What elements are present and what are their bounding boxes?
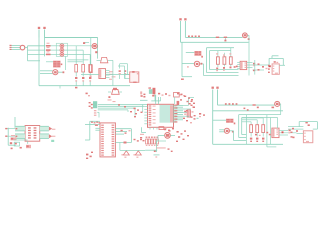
capacitor C5 xyxy=(253,63,260,66)
capacitor C6 xyxy=(253,60,268,75)
connector pins xyxy=(5,128,7,137)
connector X2 xyxy=(272,64,279,74)
wire xyxy=(247,63,269,71)
buzzer SG1 xyxy=(97,57,113,62)
wire xyxy=(28,45,46,47)
wire xyxy=(120,64,130,79)
wire xyxy=(280,104,281,115)
resistor R15 xyxy=(256,125,259,133)
diode D10 xyxy=(262,138,264,142)
pin labels xyxy=(109,71,116,80)
wire xyxy=(44,38,46,57)
transistor Q9 xyxy=(224,128,229,133)
wire xyxy=(272,56,279,59)
wire xyxy=(12,45,21,49)
wire xyxy=(242,118,264,122)
value label xyxy=(53,61,62,68)
transistor Q3 xyxy=(51,53,64,57)
wire xyxy=(219,130,234,133)
wire bus xyxy=(40,126,55,142)
wire xyxy=(207,48,239,73)
wire xyxy=(38,38,40,86)
driver U3 xyxy=(240,61,247,69)
capacitor C12 xyxy=(253,104,259,108)
wire xyxy=(267,115,276,147)
wire xyxy=(183,115,189,118)
wire xyxy=(242,118,278,135)
wire xyxy=(25,46,28,61)
timer U2 xyxy=(99,69,110,79)
resistor R1 xyxy=(46,43,51,47)
value label xyxy=(95,51,97,53)
connector X1 xyxy=(10,45,12,50)
diode D3 xyxy=(89,77,91,86)
wire xyxy=(28,53,46,55)
connector JP1 xyxy=(89,101,99,117)
wire xyxy=(113,60,125,85)
junction dots xyxy=(188,36,200,38)
capacitor C13 xyxy=(272,107,275,109)
diode D5 xyxy=(133,151,141,158)
net labels xyxy=(180,96,195,112)
capacitor C7 xyxy=(158,93,170,96)
diode D2 xyxy=(82,77,84,86)
wire xyxy=(46,56,66,70)
ground xyxy=(177,93,181,96)
pin name text xyxy=(153,105,178,124)
pin labels xyxy=(268,65,270,73)
power pin VCC1 xyxy=(38,27,40,38)
resistor R11 xyxy=(140,91,143,96)
ground xyxy=(255,132,271,136)
power pin VCC6 xyxy=(216,87,218,106)
wire xyxy=(174,97,176,104)
driver U6 xyxy=(272,128,279,138)
value labels xyxy=(216,67,231,72)
transceiver U4 xyxy=(100,123,115,157)
wire xyxy=(40,71,53,74)
wire xyxy=(59,86,61,89)
capacitor C3 xyxy=(216,37,219,38)
wire xyxy=(115,129,131,143)
net labels xyxy=(86,152,93,159)
wire VCC rail xyxy=(185,36,242,38)
resistor network RN1 xyxy=(146,137,159,146)
capacitor C8 xyxy=(174,92,185,105)
wire xyxy=(299,122,317,130)
junction dots xyxy=(225,103,249,111)
wire xyxy=(97,38,99,59)
wire xyxy=(142,127,147,132)
wire xyxy=(81,74,130,76)
diode D7 xyxy=(124,142,127,144)
wire xyxy=(140,99,148,101)
transistor Q2 xyxy=(51,48,64,52)
wire xyxy=(186,52,195,54)
wire xyxy=(247,35,249,75)
capacitor C16 xyxy=(274,61,279,63)
capacitor C9 xyxy=(199,113,205,117)
buzzer SG2 xyxy=(108,90,119,99)
wire xyxy=(204,64,239,76)
wire xyxy=(183,98,194,113)
net labels xyxy=(140,134,145,142)
diode D6 xyxy=(10,142,20,146)
wire xyxy=(7,128,17,137)
wire xyxy=(108,91,122,93)
resistor R2 xyxy=(46,47,51,51)
pin label xyxy=(236,66,238,68)
resistor R8 xyxy=(217,57,220,65)
diode D4 xyxy=(121,151,129,158)
wire xyxy=(181,42,192,80)
value labels xyxy=(134,139,143,142)
diode D9 xyxy=(256,138,258,142)
value label xyxy=(226,119,235,125)
capacitor C4 xyxy=(224,37,227,42)
wire xyxy=(239,115,281,138)
resistor R4 xyxy=(75,65,78,77)
wire bus xyxy=(85,121,100,130)
microcontroller U1 xyxy=(144,104,183,127)
wire xyxy=(213,143,283,145)
resistor R9 xyxy=(223,57,226,65)
transistor Q4 xyxy=(53,70,58,75)
comparator U5 xyxy=(158,133,175,139)
wire xyxy=(64,54,90,64)
wire xyxy=(56,43,67,56)
wire xyxy=(210,51,239,70)
wire xyxy=(115,129,131,134)
net label xyxy=(86,93,91,97)
resistor R12 xyxy=(183,110,196,123)
wire xyxy=(58,71,64,73)
wire xyxy=(269,58,284,67)
power pin xyxy=(14,117,16,128)
wire xyxy=(64,50,83,64)
wire xyxy=(154,141,160,158)
wire xyxy=(85,121,90,140)
capacitor C2 xyxy=(124,70,126,79)
capacitor C10 xyxy=(121,130,131,134)
capacitor C11 xyxy=(14,140,31,148)
capacitor C14 xyxy=(289,128,299,138)
wire xyxy=(27,141,29,144)
net arrow xyxy=(49,127,55,131)
crystal Y1 xyxy=(143,87,155,97)
wire xyxy=(28,49,46,51)
wire xyxy=(8,128,16,146)
wire xyxy=(128,105,143,116)
wire GND rail xyxy=(213,110,283,112)
wire xyxy=(251,133,263,137)
ground xyxy=(75,87,117,91)
resistor R3 xyxy=(46,51,51,55)
power pin VCC3 xyxy=(179,18,181,42)
resistor R14 xyxy=(250,125,253,133)
wire xyxy=(247,115,264,145)
junction xyxy=(282,131,284,133)
wire xyxy=(213,119,226,121)
wire xyxy=(151,94,160,101)
wire xyxy=(83,42,89,44)
wire xyxy=(234,131,247,141)
wire xyxy=(156,135,166,141)
power pin VCC5 xyxy=(212,87,214,145)
wire xyxy=(156,95,159,104)
net labels xyxy=(108,99,143,117)
wire xyxy=(150,127,157,129)
transistor Q7 xyxy=(194,61,199,66)
wire xyxy=(200,63,204,65)
wire xyxy=(277,118,279,129)
value label xyxy=(194,51,203,58)
wire bus xyxy=(98,105,148,110)
wire xyxy=(28,60,41,62)
resistor R16 xyxy=(262,125,265,133)
wire xyxy=(64,46,92,65)
capacitor C1 xyxy=(119,70,121,79)
power pin VCC2 xyxy=(43,27,45,38)
optocoupler OK1 xyxy=(25,126,40,142)
wire xyxy=(39,85,130,87)
net labels xyxy=(191,101,196,108)
pin labels xyxy=(91,122,100,124)
wire xyxy=(218,64,231,67)
resistor R10 xyxy=(229,57,232,65)
varistor RV1 xyxy=(20,45,25,50)
wire xyxy=(45,37,98,39)
resistor R5 xyxy=(82,65,85,77)
wire xyxy=(230,130,234,132)
value label xyxy=(95,125,98,126)
wire xyxy=(279,127,303,135)
diode D8 xyxy=(250,138,252,142)
wire xyxy=(120,143,145,151)
net arrow xyxy=(49,134,55,138)
transistor Q8 xyxy=(275,101,280,106)
net label xyxy=(156,147,169,149)
resistor R13 xyxy=(11,135,17,140)
resistor R7 xyxy=(89,38,92,78)
net labels xyxy=(291,122,310,138)
relay K1 xyxy=(130,71,139,83)
wire xyxy=(237,63,240,69)
wire xyxy=(218,48,231,57)
value labels xyxy=(11,147,22,149)
transistor Q6 xyxy=(243,33,250,40)
power pin VCC4 xyxy=(184,18,186,37)
resistor R6 xyxy=(89,65,92,77)
wire GND rail xyxy=(181,41,249,43)
net labels xyxy=(191,116,199,119)
net labels xyxy=(164,128,189,142)
wire VCC rail xyxy=(218,104,275,106)
diode D1 xyxy=(75,77,77,86)
pin labels xyxy=(216,53,235,68)
wire xyxy=(279,64,285,66)
transistor Q5 xyxy=(92,44,97,49)
wire bus xyxy=(15,126,25,138)
capacitor C15 xyxy=(159,127,170,131)
connector X3 xyxy=(303,131,312,143)
wire xyxy=(182,64,194,68)
wire xyxy=(145,150,172,152)
transistor Q1 xyxy=(51,44,64,48)
